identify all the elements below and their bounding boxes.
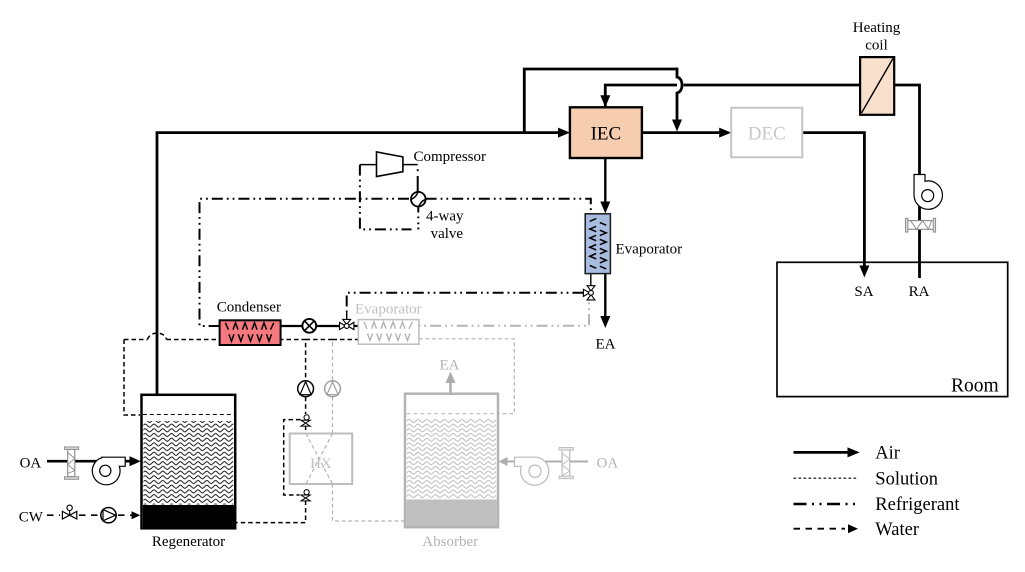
- legend air line: [794, 451, 850, 454]
- svg-text:Solution: Solution: [875, 469, 938, 489]
- wire solution hop over x157 duct: [148, 333, 167, 339]
- HX box: [290, 434, 353, 485]
- arrowhead into IEC left: [558, 128, 570, 138]
- regenerator sump (black band): [143, 505, 235, 528]
- wire valve stem condenser side: [346, 312, 348, 320]
- wire solution HX bottom valve to regenerator bottom: [236, 501, 306, 523]
- wire IEC bottom to evaporator: [604, 159, 606, 203]
- wire expansion device to 3-way valve: [316, 325, 339, 327]
- redraw diagonals above white fill: [306, 434, 333, 485]
- DEC box: [731, 108, 802, 158]
- gray fan: [515, 457, 549, 485]
- arrowhead EA end: [600, 316, 610, 328]
- CW dashed line: [47, 514, 133, 516]
- legend solution line: [794, 477, 859, 479]
- svg-text:DEC: DEC: [748, 123, 786, 144]
- RA damper: [906, 218, 936, 232]
- OA arrowhead: [130, 456, 141, 466]
- faded evaporator box: [358, 320, 419, 345]
- heating coil diagonal: [862, 59, 894, 114]
- svg-text:Evaporator: Evaporator: [355, 302, 422, 318]
- wire gray solution: evap to absorber top loop: [419, 339, 514, 414]
- wire heating coil to RA drop: [894, 85, 919, 278]
- condenser coil arrows: [225, 323, 273, 341]
- wire gray refrigerant: faded evaporator to expansion valve: [419, 301, 589, 326]
- wire gray solution: branch down to gray pump: [332, 343, 334, 381]
- wire evaporator to EA: [604, 274, 606, 317]
- svg-text:Air: Air: [875, 444, 900, 464]
- svg-text:CW: CW: [19, 509, 44, 525]
- room box: [777, 262, 1008, 396]
- wire solution pump to HX valve: [305, 397, 307, 414]
- regenerator packing waves: [144, 421, 234, 505]
- compressor discharge line: [403, 164, 418, 166]
- svg-text:IEC: IEC: [591, 123, 622, 144]
- svg-text:OA: OA: [597, 455, 619, 471]
- arrowhead bypass onto IEC-DEC duct: [672, 120, 682, 132]
- OA fan: [92, 457, 125, 485]
- svg-text:valve: valve: [431, 226, 464, 242]
- wire refrigerant condenser to 4-way valve via left riser: [200, 199, 412, 326]
- valve V1 above HX: [301, 415, 310, 426]
- wire solution horizontal y339.5 to pump drop: [167, 340, 306, 381]
- OA duct: [47, 460, 132, 463]
- compressor body: [377, 152, 403, 177]
- svg-text:4-way: 4-way: [426, 209, 464, 225]
- CW pump: [101, 508, 116, 523]
- wire refrigerant 4-way valve to evaporator top: [426, 199, 591, 212]
- hop mask white: [677, 77, 684, 93]
- redraw SA arrow tail inside room: [863, 262, 866, 266]
- wire refrigerant evap valve to condenser valve y292: [347, 293, 584, 312]
- arrowhead into IEC top: [600, 95, 610, 107]
- wire gray solution: HX diagonal TR-BL: [306, 434, 333, 485]
- redraw RA line inside room: [918, 262, 921, 278]
- pump P2 (gray): [325, 381, 341, 397]
- 4-way valve body: [411, 192, 426, 207]
- svg-text:Absorber: Absorber: [422, 534, 478, 550]
- OA damper: [64, 447, 78, 479]
- evaporator coil arrows right column: [600, 223, 606, 269]
- wire gray solution: HX to absorber bottom: [333, 484, 405, 521]
- wire bypass riser x524: [523, 69, 526, 133]
- svg-text:EA: EA: [440, 358, 460, 374]
- pump P1 (black): [298, 381, 314, 397]
- svg-text:Water: Water: [875, 520, 919, 540]
- wire refrigerant compressor loop left: [360, 165, 412, 230]
- wire refrigerant 4-way valve top stub: [417, 176, 419, 192]
- arrowhead into DEC left: [719, 128, 731, 138]
- svg-text:Evaporator: Evaporator: [616, 242, 683, 258]
- wire gray solution: gray pump to HX: [332, 397, 334, 434]
- wire bypass drop x677 with hop over y85 line: [677, 68, 682, 121]
- absorber sump (gray band): [406, 500, 497, 527]
- wire gray solution: HX diagonal TL-BR: [306, 434, 333, 485]
- absorber liquid level dashed: [406, 413, 497, 415]
- svg-text:SA: SA: [854, 284, 873, 300]
- wire condenser to expansion device: [281, 325, 303, 327]
- gray OA arrowhead: [498, 457, 507, 466]
- CW valve: [62, 505, 76, 519]
- wire regenerator-top to OA-IEC duct vertical x157: [156, 133, 159, 395]
- wire IEC to DEC: [643, 131, 720, 134]
- regenerator liquid level dashed line: [143, 414, 235, 416]
- wire solution regenerator feed: down-left leg into tank: [124, 340, 140, 416]
- svg-text:coil: coil: [865, 38, 888, 54]
- wire solution branch to faded evaporator: [306, 340, 359, 344]
- wire evap bottom stub to valve: [590, 274, 592, 286]
- svg-text:HX: HX: [310, 456, 332, 472]
- svg-text:Condenser: Condenser: [217, 300, 281, 316]
- svg-text:Regenerator: Regenerator: [152, 534, 225, 550]
- svg-text:Room: Room: [951, 376, 999, 397]
- wire solution horizontal y339.5 left of hop: [124, 339, 148, 341]
- gray OA duct: [505, 461, 588, 463]
- svg-text:EA: EA: [596, 336, 616, 352]
- evaporator box: [585, 214, 610, 274]
- wire regen-air horizontal y85 to heating coil: [605, 85, 860, 107]
- evaporator coil arrows left column: [590, 219, 596, 269]
- wire solution HX bypass rectangle: [284, 420, 301, 495]
- legend water line: [794, 528, 846, 530]
- svg-text:OA: OA: [20, 456, 42, 472]
- svg-text:RA: RA: [909, 284, 930, 300]
- gray damper: [559, 448, 573, 479]
- legend refrigerant line: [794, 503, 861, 506]
- svg-text:Compressor: Compressor: [414, 149, 487, 165]
- wire solution valve stem into HX: [305, 426, 307, 434]
- compressor suction line: [360, 164, 377, 166]
- arrowhead into evaporator top: [600, 202, 610, 214]
- svg-text:Heating: Heating: [853, 20, 901, 36]
- faded coil arrows: [364, 322, 412, 340]
- wire DEC to SA drop: [803, 133, 864, 266]
- regenerator tank body: [142, 395, 236, 529]
- absorber packing waves: [407, 419, 496, 499]
- arrowhead SA into room: [859, 266, 869, 278]
- valve V2 below HX: [301, 490, 310, 501]
- gray EA arrow from absorber: [449, 378, 452, 393]
- IEC box: [570, 107, 642, 158]
- svg-text:Refrigerant: Refrigerant: [875, 495, 960, 515]
- wire 3-way valve to faded evaporator: [354, 325, 358, 327]
- wire refrigerant 4-way valve bottom stub: [417, 207, 419, 213]
- absorber tank body: [405, 394, 498, 528]
- condenser box: [220, 320, 281, 345]
- wire bypass top horizontal y69: [523, 68, 677, 71]
- RA fan: [914, 175, 942, 210]
- heating coil box: [860, 57, 894, 115]
- wire OA duct horizontal to IEC: [156, 131, 559, 134]
- CW arrowhead: [132, 511, 141, 519]
